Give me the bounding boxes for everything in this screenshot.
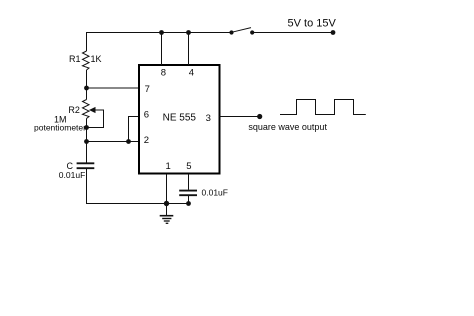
svg-text:5V to 15V: 5V to 15V <box>288 17 337 29</box>
svg-text:6: 6 <box>144 110 149 121</box>
switch S1 (open) <box>229 28 254 35</box>
node: pin7 junction <box>84 86 89 91</box>
svg-text:1K: 1K <box>91 54 102 64</box>
wire: pin 6 jog to pin 2 line <box>126 117 139 144</box>
wire: R1 bottom to R2 top <box>86 70 88 100</box>
svg-text:R1: R1 <box>69 54 81 64</box>
wire: to pin 2 <box>87 141 140 143</box>
svg-text:8: 8 <box>161 67 166 78</box>
wire: capacitor C bottom to ground rail <box>87 169 189 204</box>
wire: pin 3 output <box>220 116 260 118</box>
IC U1 NE 555 <box>139 65 220 174</box>
svg-text:4: 4 <box>189 67 194 78</box>
node: ground junction <box>164 201 169 206</box>
svg-text:potentiometer: potentiometer <box>34 123 86 133</box>
wire: left rail top <box>86 33 88 52</box>
wire: pin 4 to rail <box>188 33 190 66</box>
node: pin4 junction <box>186 30 191 35</box>
svg-text:square wave output: square wave output <box>248 122 327 132</box>
node: output terminal <box>257 114 262 119</box>
svg-text:2: 2 <box>144 135 149 146</box>
wire: R2 bottom down to capacitor C <box>86 119 88 163</box>
capacitor C 0.01uF <box>59 161 95 180</box>
wire: pin 1 to ground rail <box>166 174 168 204</box>
capacitor C2 0.01uF on pin 5 <box>179 174 228 206</box>
svg-text:5: 5 <box>186 161 191 172</box>
svg-text:R2: R2 <box>68 105 80 115</box>
wire: to pin 7 <box>87 87 140 89</box>
waveform: square wave <box>280 100 366 115</box>
svg-text:1: 1 <box>166 161 171 172</box>
node: wiper junction <box>84 125 89 130</box>
wire: top supply rail right segment <box>252 32 333 34</box>
wire: pin 8 to rail <box>161 33 163 66</box>
node: pin8 junction <box>159 30 164 35</box>
svg-text:0.01uF: 0.01uF <box>202 188 228 198</box>
potentiometer R2 1M <box>34 100 104 133</box>
ground <box>160 204 174 224</box>
node: pin2 junction <box>84 139 89 144</box>
wire: top supply rail left segment <box>86 32 232 34</box>
svg-text:NE 555: NE 555 <box>163 112 197 123</box>
svg-text:0.01uF: 0.01uF <box>59 170 85 180</box>
svg-text:7: 7 <box>145 84 150 95</box>
resistor R1 1K <box>69 51 102 70</box>
svg-text:3: 3 <box>206 113 211 124</box>
node: supply terminal <box>331 30 336 35</box>
